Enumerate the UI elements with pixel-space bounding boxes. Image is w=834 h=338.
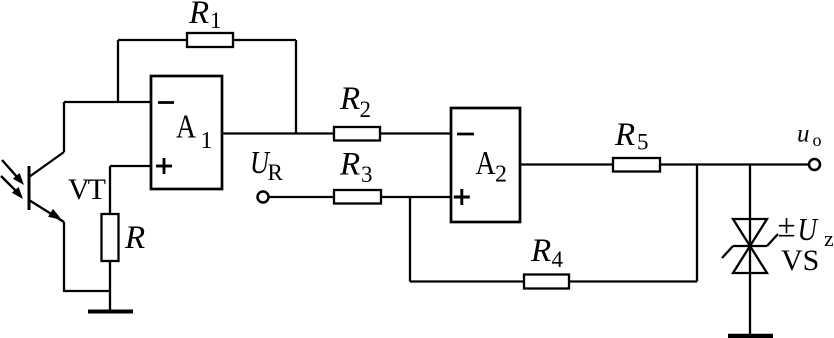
svg-text:1: 1 <box>201 128 213 154</box>
resistor R <box>102 214 119 261</box>
svg-text:2: 2 <box>360 97 372 122</box>
emitter diagonal <box>29 200 64 222</box>
resistor R5 <box>613 158 660 172</box>
wire VT collector vertical <box>63 102 65 152</box>
svg-text:R: R <box>124 220 145 256</box>
wire A1 plus input <box>110 165 151 167</box>
wire R1 right horizontal <box>233 39 296 41</box>
A1 plus symbol <box>156 158 172 174</box>
resistor R4 <box>524 275 569 289</box>
light arrow 1 <box>2 160 18 178</box>
bottom triangle <box>733 246 767 273</box>
emitter arrowhead <box>48 209 62 220</box>
wire R1 right vertical down to A1 output <box>295 40 297 134</box>
svg-text:R: R <box>614 117 635 153</box>
svg-text:A: A <box>176 109 196 146</box>
center vertical through symbol <box>749 219 751 273</box>
svg-text:o: o <box>813 130 822 150</box>
wire A2 output to R5 <box>520 163 613 165</box>
collector diagonal <box>29 152 64 177</box>
ground left <box>88 310 133 314</box>
svg-text:1: 1 <box>210 8 222 33</box>
resistor R1 <box>187 33 233 47</box>
wire UR to R3 <box>268 196 334 198</box>
left tick <box>722 246 733 258</box>
svg-text:u: u <box>797 121 810 148</box>
wire node down to R4 <box>409 197 411 282</box>
svg-text:2: 2 <box>495 162 507 188</box>
wire VT emitter vertical <box>63 222 65 291</box>
svg-text:±: ± <box>778 209 796 245</box>
wire R1 left vertical down to minus input <box>117 40 119 102</box>
svg-text:R: R <box>530 233 551 269</box>
light arrow 2 <box>1 176 17 192</box>
transistor VT phototransistor <box>1 152 64 222</box>
wire R3 to A2 plus <box>381 196 451 198</box>
wire R1 left horizontal <box>118 39 187 41</box>
resistor R2 <box>334 127 380 141</box>
svg-text:3: 3 <box>361 162 373 187</box>
wire R bottom to ground <box>109 261 111 310</box>
zener diode VS bidirectional <box>722 219 778 273</box>
middle bar <box>733 245 767 247</box>
wire R4 feedback left horizontal <box>410 280 524 282</box>
svg-text:R: R <box>268 160 284 185</box>
base bar <box>28 166 31 210</box>
svg-text:R: R <box>339 147 360 183</box>
wire A1 output to R2 <box>222 132 334 134</box>
wire R4 right vertical up to output line <box>696 165 698 282</box>
wire R5 to output terminal <box>660 163 810 165</box>
wire plus input down to resistor R <box>109 166 111 214</box>
svg-text:A: A <box>476 145 496 182</box>
resistor R3 <box>334 190 381 204</box>
svg-text:z: z <box>824 226 834 251</box>
wire emitter to ground node horizontal <box>63 290 110 292</box>
svg-text:U: U <box>798 211 819 247</box>
terminal uo circle <box>809 159 820 170</box>
A1 minus symbol <box>158 101 174 104</box>
wire R2 to A2 minus <box>380 132 451 134</box>
svg-text:4: 4 <box>552 247 564 272</box>
op-amp A2 box <box>451 108 520 222</box>
svg-text:5: 5 <box>637 130 649 155</box>
op-amp A1 box <box>151 76 222 189</box>
svg-text:R: R <box>188 0 209 31</box>
svg-text:R: R <box>339 81 360 117</box>
A2 minus symbol <box>457 133 474 136</box>
A2 plus symbol <box>454 189 470 205</box>
wire zener branch vertical top <box>749 165 751 220</box>
right tick <box>767 234 778 246</box>
terminal UR circle <box>258 192 269 203</box>
wire R4 right horizontal <box>569 280 697 282</box>
wire A1 minus input <box>64 101 151 103</box>
top triangle <box>733 219 767 246</box>
wire zener to ground <box>749 273 751 334</box>
svg-text:VT: VT <box>68 173 106 206</box>
ground right <box>728 334 773 338</box>
svg-text:VS: VS <box>781 244 819 277</box>
